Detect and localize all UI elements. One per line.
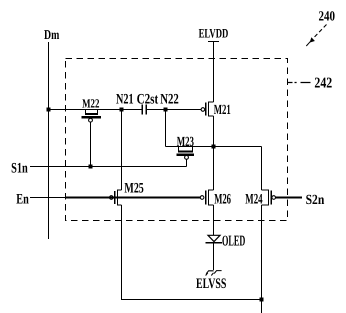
svg-text:ELVDD: ELVDD [199,25,229,40]
svg-text:240: 240 [319,10,336,25]
svg-text:N22: N22 [160,91,179,107]
svg-text:M26: M26 [214,191,231,207]
svg-text:C2st: C2st [137,91,159,107]
svg-text:Dm: Dm [44,27,60,42]
svg-text:OLED: OLED [222,233,245,249]
svg-text:En: En [16,192,29,208]
svg-text:M21: M21 [214,103,231,118]
svg-text:S2n: S2n [306,193,325,208]
svg-text:M24: M24 [245,191,262,207]
svg-text:M22: M22 [82,96,99,110]
svg-text:ELVSS: ELVSS [196,276,226,292]
svg-text:242: 242 [314,76,332,92]
svg-text:M25: M25 [124,181,143,197]
svg-text:M23: M23 [177,135,194,150]
svg-text:N21: N21 [116,91,134,107]
svg-text:S1n: S1n [11,161,28,177]
